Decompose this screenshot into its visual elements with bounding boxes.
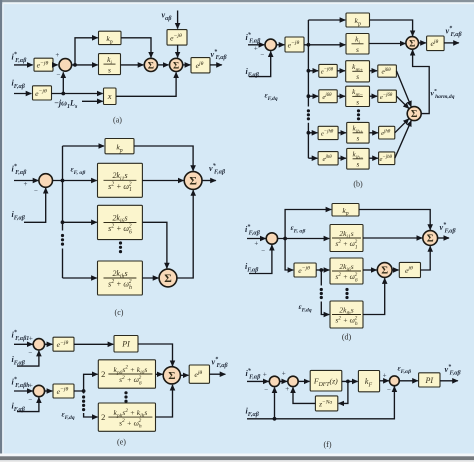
(b) wire: to e^jhtheta block (369, 132, 378, 134)
(e) wire: harmonic reference into summing node (14, 390, 33, 392)
(c) wire: lower summer up into main summer (177, 190, 193, 278)
(e) wire: PI output down into summer (138, 344, 173, 366)
(b) wire: to e^-j6theta block (row 6-) (370, 95, 378, 97)
(f) wire: DFT output down into delay block (339, 381, 348, 403)
(b) junction dot row 6- (307, 94, 311, 98)
(b) harmonic blocks dots column (357, 109, 360, 112)
svg-text:Σ: Σ (381, 266, 388, 277)
(b) inverse rotation block e^jtheta (427, 36, 445, 51)
(e) junction dot on dq bus (82, 389, 86, 393)
svg-text:Σ: Σ (164, 273, 172, 285)
(c) proportional block kp (105, 139, 134, 154)
(a) rotation block e^-jtheta (feedforward) (167, 30, 187, 45)
(d) wire: harmonic summer to inverse rotation (392, 269, 398, 271)
(d) output arrow (438, 237, 449, 239)
(e) harmonic summing node circle (33, 385, 44, 396)
(b) rotation block e^jhtheta (row h+) (379, 126, 395, 139)
(d) rotation block e^-jtheta (294, 263, 316, 277)
(f) wire: delay output up into node 2 (293, 387, 315, 403)
(f) wire: node 2 to DFT block (298, 380, 309, 382)
(a) wire: i* reference into rotation block (14, 64, 33, 66)
svg-text:+: + (55, 51, 59, 59)
(b) rotation block e^j6theta (row 6-) (319, 90, 337, 103)
(e) rotation block e^-jtheta (fundamental) (53, 337, 74, 351)
(d) fundamental resonant block 2ki1s/(s2+w1^2) (330, 225, 363, 252)
svg-text:s: s (356, 161, 359, 169)
svg-text:+: + (254, 240, 258, 248)
(b) wire: kp output down into main summer (370, 20, 413, 36)
(f) summing node 3 circle (390, 376, 400, 386)
(b) resonant gain block kih+/s (347, 122, 369, 143)
(b) wire: bus to e^-jhtheta block (308, 132, 317, 134)
(a) wire: v_ab into rotation block (177, 11, 179, 29)
svg-text:s: s (356, 45, 359, 54)
svg-text:Σ: Σ (173, 61, 179, 71)
(b) main summer circle (406, 37, 419, 50)
(e) PI block (114, 336, 138, 353)
(b) harmonic return wire to main summer (413, 50, 430, 114)
(b) wire: to kih+ block (338, 132, 346, 134)
(f) gain block kF (358, 371, 379, 392)
(b) proportional block kp (346, 13, 370, 27)
(b) summing node circle (265, 39, 276, 50)
(d) wire: fundamental output into main summer (363, 237, 422, 239)
(b) wire: reference into summing node (248, 44, 264, 46)
svg-text:−: − (387, 386, 391, 394)
(e) wire: harmonic error to rotation block (45, 390, 53, 392)
left frame band (0, 0, 2, 456)
(c) wire: fundamental output to main summer (142, 180, 183, 182)
(b) wire: bus to e^j6theta block (row 6-) (308, 95, 318, 97)
(b) resonant gain block kih-/s (347, 148, 369, 169)
svg-text:−: − (34, 187, 38, 195)
svg-text:−: − (57, 71, 61, 79)
(e) wire: summer to inverse rotation (180, 374, 188, 376)
(c) wire: feedback up into summing node (24, 188, 46, 222)
(b) rotation block e^j6theta (row 6+) (378, 65, 397, 77)
(b) junction dot row h+ (307, 131, 311, 135)
(f) DFT filter block F_DFT(z) (310, 370, 342, 391)
(b) harmonic summer circle (407, 107, 421, 121)
(e) dq bus lower segment into h PR block (84, 413, 98, 417)
(b) wire: error to ki/s block (304, 44, 345, 46)
(b) wire: to e^j6theta block (370, 70, 378, 72)
(d) h resonant block 2kihs/(s2+wh^2) (330, 301, 363, 328)
(c) summing node circle (39, 174, 53, 188)
svg-text:x: x (107, 91, 112, 101)
(e) wire: fundamental error to rotation block (45, 343, 53, 345)
(b) wire: to kih- block (338, 157, 346, 159)
svg-text:−: − (260, 51, 264, 59)
(b) error bus dots column (307, 109, 310, 112)
(b) output arrow (444, 42, 459, 44)
svg-text:Σ: Σ (409, 39, 415, 49)
(b) wire: bus to kp block (308, 19, 345, 21)
(c) lower summer circle (159, 269, 177, 287)
(b) resonant gain block ki6+/s (346, 61, 370, 82)
(a) wire: feedforward into summer 2 (177, 45, 179, 57)
(b) diagonal wire row h+ into harmonic summer (395, 119, 409, 133)
(d) wire: error to fundamental resonant block (278, 238, 330, 240)
(f) wire: node 3 to PI block (399, 380, 418, 382)
(d) main summer circle (423, 231, 438, 246)
(a) wire: block to summing node (53, 64, 58, 66)
(d) proportional block kp (332, 204, 359, 217)
svg-text:(c): (c) (115, 308, 124, 317)
(e) h PR block 2(kph s2 + kih s)/(s2+wh^2) (98, 403, 155, 431)
(a) wire: summer 2 to inverse rotation (183, 64, 191, 66)
(b) wire: to ki6- block (337, 95, 345, 97)
(b) wire: bus to e^jhtheta block (row h-) (308, 157, 317, 159)
(d) wire: error branch down to rotation block (285, 239, 293, 271)
(e) rotation block e^-jtheta (harmonic) (53, 384, 74, 398)
svg-text:PI: PI (121, 340, 130, 349)
(d) dq bus dots column (320, 288, 323, 291)
(e) wire: rotated error to 6th PR block (74, 374, 98, 391)
svg-text:s: s (356, 73, 359, 81)
(d) wire: 6th output to harmonic summer (363, 269, 377, 271)
(a) wire: ki output to summer 1 (121, 64, 144, 66)
(e) dq bus dots column (82, 395, 85, 398)
(d) wire: h output up into harmonic summer (363, 278, 385, 314)
(b) rotation block e^jhtheta (row h-) (318, 152, 338, 165)
(c) error bus vertical upper segment (62, 146, 64, 231)
(f) output arrow (440, 380, 458, 382)
(d) wire: error branch up to kp block (285, 210, 331, 239)
(c) junction dot error bus main row (61, 179, 65, 183)
(b) rotation block e^-jhtheta (row h-) (379, 152, 395, 165)
(a) wire: error branch up to kp block (75, 38, 98, 65)
(b) diagonal wire row 6- into harmonic summer (396, 96, 408, 108)
(a) junction dot on feedback wire (61, 92, 65, 96)
(c) wire: 6th output down to lower summer (142, 222, 167, 268)
(b) junction dot row 6+ (307, 69, 311, 73)
(e) wire: h PR output up into summer (156, 385, 173, 417)
svg-text:Σ: Σ (427, 234, 434, 245)
svg-text:s: s (356, 98, 359, 106)
(e) wire: feedback up into harmonic summing node (17, 398, 39, 412)
(f) junction dot on bottom wire (273, 417, 277, 421)
svg-text:+: + (254, 45, 258, 53)
(d) 6th resonant block 2ki6s/(s2+w6^2) (330, 258, 363, 284)
svg-text:−: − (28, 349, 32, 357)
(b) wire: main summer to inverse rotation (419, 42, 426, 44)
(a) rotation block e^-jtheta (reference path) (34, 58, 53, 71)
(c) wire: bus to 6th resonant block (63, 221, 97, 223)
svg-text:s: s (356, 135, 359, 143)
(f) delay block z^-Na (315, 396, 337, 411)
(c) 6th resonant block 2ki6s/(s2+w6^2) (98, 205, 143, 239)
svg-text:+: + (383, 372, 387, 380)
(f) summing node 2 circle (288, 376, 298, 386)
(b) wire: feedback up into summing node (249, 51, 271, 76)
svg-text:−: − (261, 247, 265, 255)
(d) wire: reference into summing node (247, 238, 266, 240)
(f) wire: reference into summing node 1 (247, 380, 269, 382)
(d) dq bus vertical segment (320, 270, 322, 286)
(a) wire: kp output down to summer 1 (121, 38, 151, 58)
(e) inverse rotation block e^jtheta (189, 365, 209, 383)
(b) wire: bus to e^-j6theta block (308, 70, 318, 72)
(a) summer 1 circle (144, 58, 157, 71)
(a) wire: multiplier output up into summer 2 (116, 72, 176, 96)
(d) dq bus lower segment into h resonant block (321, 302, 329, 315)
(c) error bus vertical lower segment (62, 249, 64, 279)
(a) inverse rotation block e^jtheta (191, 58, 210, 73)
(b) integral block ki/s (346, 34, 369, 55)
(c) h resonant block 2kihs/(s2+wh^2) (98, 261, 143, 295)
(d) junction dot error bus (283, 237, 287, 241)
(d) wire: inverse rotation up into main summer (421, 246, 431, 270)
(b) wire: ki output into main summer (369, 43, 405, 45)
(e) wire: fundamental reference into summing node (14, 343, 33, 345)
(c) block column dots (119, 241, 122, 244)
(a) junction dot on error wire (73, 63, 77, 67)
(c) fundamental resonant block 2ki1s/(s2+w1^2) (98, 163, 143, 197)
(a) wire: decoupling gain into multiplier (82, 100, 103, 102)
(d) block column dots (345, 288, 348, 291)
svg-text:PI: PI (425, 376, 434, 385)
svg-text:Σ: Σ (148, 61, 154, 71)
(a) summing node circle (59, 59, 72, 72)
(e) wire: 6th PR output to summer (156, 373, 163, 375)
svg-text:(f): (f) (324, 440, 332, 449)
(f) summing node 1 circle (269, 376, 279, 386)
(c) wire: bus to h resonant block (63, 277, 97, 279)
(a) wire: summer 1 to summer 2 (158, 64, 169, 66)
(a) rotation block e^-jtheta (feedback path) (33, 86, 52, 100)
(c) wire: h output to lower summer (142, 277, 158, 279)
svg-text:Σ: Σ (168, 370, 175, 382)
(c) wire: bus to kp block (63, 145, 105, 147)
(b) rotation block e^-j6theta (319, 64, 337, 77)
svg-text:(a): (a) (113, 116, 122, 125)
svg-text:+: + (263, 370, 267, 378)
(f) feedback bottom wire to node 3 (247, 387, 394, 419)
(c) wire: kp output down to main summer (134, 146, 193, 171)
(a) integral block ki/s (99, 54, 121, 75)
(f) junction dot after DFT block (346, 380, 350, 384)
(d) harmonic summer circle (377, 263, 392, 278)
(c) output arrow (202, 180, 216, 182)
(b) resonant gain block ki6-/s (346, 86, 370, 106)
(d) summing node circle (266, 233, 277, 244)
(d) junction dot dq bus (319, 268, 323, 272)
(c) wire: reference into summing node (14, 180, 38, 182)
(e) output arrow (210, 373, 226, 375)
svg-text:s: s (108, 65, 111, 74)
top frame band (0, 0, 474, 2)
svg-text:+: + (29, 335, 33, 343)
(b) error bus vertical lower segment (307, 123, 309, 158)
(f) wire: node 1 to node 2 (280, 380, 287, 382)
(b) wire: to ki6+ block (337, 70, 345, 72)
(d) wire: feedback up into summing node (249, 245, 272, 274)
svg-text:(b): (b) (353, 180, 363, 189)
(a) wire: measured current into rotation block (14, 93, 31, 95)
(c) error bus dots column (61, 234, 64, 237)
(f) wire: bottom wire up into node 1 (274, 387, 276, 418)
(e) wire: to PI block (74, 343, 113, 345)
(a) wire: feedback to multiplier block (52, 93, 103, 95)
svg-text:2: 2 (101, 412, 105, 422)
(f) wire: kF output to summing node 3 (380, 380, 389, 382)
(e) fundamental summing node circle (33, 339, 44, 350)
(e) 6th PR block 2(kp6 s2 + ki6 s)/(s2+w6^2) (98, 360, 155, 388)
svg-text:Σ: Σ (189, 176, 197, 188)
(b) rotation block e^-jhtheta (318, 126, 338, 139)
(a) wire: feedback up into summing node (62, 72, 64, 93)
svg-text:+: + (24, 180, 28, 188)
(a) multiplier block x (104, 88, 117, 105)
(f) PI block (419, 373, 440, 387)
(e) summer circle (163, 367, 180, 384)
svg-text:(e): (e) (117, 438, 126, 447)
(b) diagonal wire row h- into harmonic summer (395, 121, 411, 158)
(d) wire: rotated error to 6th resonant block (316, 269, 329, 271)
(e) dq bus vertical segment down (83, 391, 85, 394)
(b) junction dot on error bus (307, 43, 311, 47)
(b) diagonal wire row 6+ into harmonic summer (396, 71, 411, 107)
(b) wire: summing node to rotation block (276, 44, 284, 46)
bottom frame band (0, 454, 474, 457)
(e) blocks dots column (124, 391, 127, 394)
svg-text:+: + (285, 385, 289, 393)
svg-text:2: 2 (101, 369, 105, 379)
(d) inverse rotation block e^jtheta (399, 262, 420, 277)
(d) wire: kp output down into main summer (359, 210, 430, 230)
(a) wire: error to ki/s block (72, 64, 98, 66)
svg-text:+: + (282, 370, 286, 378)
svg-text:−: − (264, 386, 268, 394)
(a) output arrow (210, 64, 222, 66)
svg-text:−: − (28, 396, 32, 404)
(c) wire: error to fundamental resonant block (53, 180, 97, 182)
(a) proportional block kp (99, 31, 122, 44)
(b) error bus vertical upper segment (307, 20, 309, 107)
(b) wire: to e^-jhtheta block (row h-) (369, 157, 378, 159)
(a) summer 2 circle (170, 58, 183, 71)
svg-text:(d): (d) (342, 333, 352, 342)
(b) rotation block e^-j6theta (row 6-) (378, 90, 397, 102)
(b) rotation block e^-jtheta (285, 37, 304, 52)
svg-text:+: + (29, 381, 33, 389)
svg-text:Σ: Σ (411, 109, 418, 120)
(c) junction dot row 6 (61, 220, 65, 224)
(c) main summer circle (184, 172, 202, 190)
(f) wire: DFT output to kF block (342, 380, 358, 382)
(e) wire: feedback up into fundamental summing node (17, 351, 39, 366)
